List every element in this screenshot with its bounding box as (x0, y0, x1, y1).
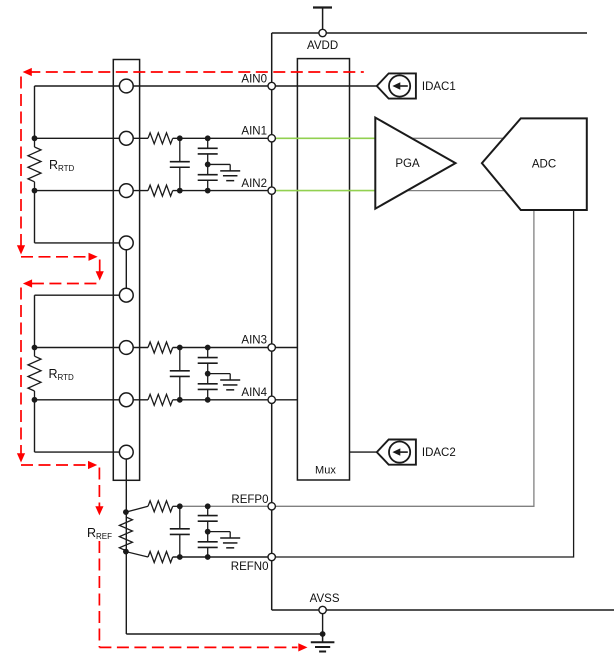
svg-text:RREF: RREF (87, 526, 112, 541)
wire red dashed to R_REF column (21, 464, 89, 466)
wire REFP0 to pin (173, 505, 180, 507)
wire REFN0 to ADC (272, 211, 574, 557)
svg-text:AIN2: AIN2 (241, 178, 267, 190)
resistor R1 RTD upper (34, 138, 36, 147)
connector terminal 8 (119, 445, 133, 459)
wire AIN1 lead (35, 137, 149, 139)
wire AIN3 lead (35, 347, 149, 349)
block ADC (482, 118, 587, 210)
svg-text:ADC: ADC (532, 159, 556, 171)
pin AIN2 (268, 187, 275, 194)
wire REFN0 to pin (173, 556, 272, 558)
pin REFP0 (268, 503, 275, 510)
wire AIN4 lead (35, 399, 149, 401)
node AIN1 junctions (177, 135, 183, 141)
svg-text:RRTD: RRTD (49, 158, 75, 173)
connector terminal 7 (119, 393, 133, 407)
wire PGA output top (gray) (380, 137, 512, 139)
node RTD1 top (32, 135, 38, 141)
svg-text:AVDD: AVDD (307, 40, 338, 52)
wire terminal 8 down to bottom rail (125, 452, 127, 634)
ground signal REF (220, 537, 240, 539)
wire red dashed R_REF vertical upper (98, 468, 100, 507)
pin REFN0 (268, 553, 275, 560)
connector terminal block (113, 60, 139, 481)
wire to signal ground REF (208, 531, 231, 533)
svg-text:AIN1: AIN1 (241, 126, 267, 138)
capacitor differential REF (179, 506, 181, 528)
node REFP0 junctions (177, 503, 183, 509)
wire AIN4 down to terminal 8 (34, 400, 36, 452)
connector terminal 5 (119, 288, 133, 302)
node REFN0 junctions (177, 554, 183, 560)
connector terminal 1 (119, 79, 133, 93)
capacitor common-mode REFP0 (207, 506, 209, 515)
wire PGA output bottom (gray) (380, 190, 512, 192)
pin AIN4 (268, 396, 275, 403)
capacitor differential AIN1-AIN2 (179, 138, 181, 161)
resistor R2 RTD lower (34, 348, 36, 357)
svg-text:Mux: Mux (315, 465, 336, 477)
connector terminal 3 (119, 184, 133, 198)
node ground junction (320, 631, 326, 637)
node RTD1 bottom (32, 188, 38, 194)
resistor series AIN1 (148, 133, 173, 144)
wire AIN2 lead (35, 190, 149, 192)
wire AIN2 to pin (173, 190, 272, 192)
svg-text:RRTD: RRTD (49, 367, 75, 382)
resistor series REFP0 (148, 501, 173, 512)
current source IDAC2 (377, 440, 416, 465)
capacitor common-mode AIN3 (207, 348, 209, 358)
wire terminal4-terminal5 bridge (125, 243, 127, 295)
capacitor common-mode AIN2 (207, 164, 209, 174)
svg-text:REFP0: REFP0 (231, 494, 268, 506)
pin AVSS (319, 606, 326, 613)
svg-text:AIN4: AIN4 (241, 387, 267, 399)
capacitor differential AIN3-AIN4 (179, 348, 181, 371)
wire REFP0 to ADC (gray) (272, 211, 534, 506)
wire to signal ground (208, 163, 231, 165)
capacitor common-mode AIN4 (207, 374, 209, 384)
connector terminal 6 (119, 341, 133, 355)
wire red dashed to terminal 4 (21, 256, 89, 258)
wire red dashed back from terminal 5 (32, 283, 100, 285)
wire terminal 5 to AIN3 (35, 294, 127, 296)
node RTD2 bottom (32, 397, 38, 403)
connector terminal 4 (119, 236, 133, 250)
capacitor common-mode AIN1 (207, 138, 209, 148)
wire red dashed left vertical lower (20, 288, 22, 454)
node AIN2 junctions (177, 188, 183, 194)
wire chip top edge (AVDD rail) (272, 32, 587, 34)
pin AVDD (319, 29, 326, 36)
pin AIN1 (268, 135, 275, 142)
wire chip left edge (271, 33, 273, 610)
node R_REF top (123, 509, 129, 515)
wire red dashed R_REF vertical lower (98, 541, 100, 647)
resistor series AIN4 (148, 394, 173, 405)
wire AIN0 from terminal to IDAC1 (35, 85, 377, 87)
wire bottom rail to ground (126, 633, 322, 635)
ground power (322, 634, 324, 642)
resistor series REFN0 (148, 552, 173, 563)
wire to signal ground (208, 373, 231, 375)
op-amp PGA (375, 118, 455, 209)
svg-text:PGA: PGA (395, 158, 420, 170)
wire AIN4 to pin (173, 399, 272, 401)
wire Mux to IDAC2 (350, 451, 377, 453)
wire left loop top vertical (34, 86, 36, 138)
ground signal (220, 379, 240, 381)
wire red dashed left vertical upper (20, 77, 22, 246)
current source IDAC1 (377, 73, 416, 98)
node AIN3 junctions (177, 345, 183, 351)
wire red dashed bottom to ground (99, 646, 297, 648)
svg-text:IDAC2: IDAC2 (422, 447, 456, 459)
wire AIN4 into Mux (272, 399, 298, 401)
wire AIN2 selected (green) (275, 190, 376, 192)
resistor series AIN2 (148, 185, 173, 196)
wire red dashed short vertical (99, 260, 101, 273)
wire REFP0 diagonal lead (126, 506, 148, 512)
resistor series AIN3 (148, 342, 173, 353)
pin AIN0 (268, 82, 275, 89)
node common-mode midpoint (205, 371, 211, 377)
node REF common-mode midpoint (205, 529, 211, 535)
svg-text:AIN3: AIN3 (241, 334, 267, 346)
wire AIN3 into Mux (272, 347, 298, 349)
ground signal (220, 170, 240, 172)
svg-text:IDAC1: IDAC1 (422, 81, 456, 93)
svg-text:AIN0: AIN0 (241, 74, 267, 86)
connector terminal 2 (119, 131, 133, 145)
power AVDD supply bar (322, 8, 324, 34)
node AIN4 junctions (177, 397, 183, 403)
node RTD2 top (32, 345, 38, 351)
pin AIN3 (268, 344, 275, 351)
block Mux (297, 59, 349, 480)
svg-text:AVSS: AVSS (310, 593, 340, 605)
wire AIN2 down to terminal 4 (34, 191, 36, 243)
wire AIN3 to pin (173, 347, 272, 349)
wire red dashed AIN0 return path (top) (32, 71, 364, 73)
node R_REF bottom (123, 549, 129, 555)
node common-mode midpoint (205, 162, 211, 168)
svg-text:REFN0: REFN0 (231, 561, 269, 573)
capacitor common-mode REFN0 (207, 532, 209, 542)
wire AVSS to ground (322, 614, 324, 634)
resistor R_REF (119, 517, 132, 551)
wire REFN0 diagonal lead (126, 552, 148, 557)
wire AIN1 selected (green) (275, 137, 376, 139)
wire chip bottom edge (AVSS rail) (272, 609, 614, 611)
wire AIN1 to pin (173, 137, 272, 139)
